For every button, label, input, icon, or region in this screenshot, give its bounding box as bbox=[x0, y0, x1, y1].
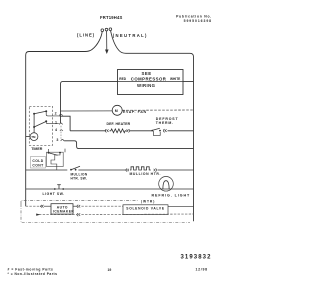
svg-text:HTR. SW.: HTR. SW. bbox=[71, 176, 88, 180]
svg-text:RED: RED bbox=[119, 77, 126, 81]
svg-text:M: M bbox=[115, 109, 118, 113]
timer terminal dashed lead bbox=[60, 126, 62, 139]
connector bbox=[105, 129, 108, 132]
compressor feed wire bbox=[63, 80, 194, 82]
svg-text:3193832: 3193832 bbox=[181, 255, 212, 261]
svg-text:SOLENOID VALVE: SOLENOID VALVE bbox=[126, 207, 165, 211]
resistor defrost heater bbox=[110, 129, 127, 133]
defrost heater row bbox=[70, 130, 106, 132]
svg-text:ICEMAKER: ICEMAKER bbox=[53, 209, 74, 213]
svg-text:MULLION HTR.: MULLION HTR. bbox=[130, 172, 162, 176]
svg-text:4: 4 bbox=[55, 128, 57, 132]
svg-text:COMPRESSOR: COMPRESSOR bbox=[131, 77, 167, 82]
svg-text:12/98: 12/98 bbox=[196, 267, 208, 271]
svg-text:SEE: SEE bbox=[142, 71, 152, 76]
svg-text:EVAP. FAN: EVAP. FAN bbox=[123, 110, 147, 114]
riser from timer terminal 2 bbox=[61, 81, 64, 123]
timer switch left column bbox=[33, 114, 35, 133]
svg-text:3: 3 bbox=[56, 138, 58, 142]
svg-text:# = Fast-moving Parts: # = Fast-moving Parts bbox=[8, 267, 54, 271]
connector bbox=[126, 169, 129, 172]
svg-text:* = Non-Illustrated Parts: * = Non-Illustrated Parts bbox=[8, 272, 58, 276]
power plug prong N bbox=[109, 28, 112, 31]
mullion row bbox=[26, 169, 68, 171]
svg-text:2: 2 bbox=[55, 112, 57, 116]
icemaker accessory enclosure (dash-dot) bbox=[21, 200, 138, 204]
svg-text:(LINE): (LINE) bbox=[77, 33, 95, 38]
timer branch to defrost heater bbox=[61, 116, 71, 131]
evap fan row bbox=[61, 110, 113, 112]
cold control switch bbox=[47, 152, 64, 166]
svg-text:TIMER: TIMER bbox=[31, 147, 43, 151]
svg-text:1: 1 bbox=[55, 121, 57, 125]
water solenoid valve box bbox=[123, 205, 168, 215]
svg-text:WHITE: WHITE bbox=[170, 77, 180, 81]
valve to neutral bus bbox=[168, 205, 194, 207]
timer dashed box bbox=[29, 106, 52, 145]
svg-text:DEF. HEATER: DEF. HEATER bbox=[107, 122, 131, 126]
svg-text:(NEUTRAL): (NEUTRAL) bbox=[113, 33, 148, 38]
svg-text:5995016398: 5995016398 bbox=[184, 19, 212, 23]
icemaker box bbox=[51, 204, 73, 214]
light row bbox=[26, 188, 54, 190]
contact 2 lead bbox=[46, 111, 58, 116]
wire to defrost thermostat bbox=[130, 130, 152, 132]
wire thermostat to neutral bus bbox=[168, 130, 194, 132]
svg-text:THERM.: THERM. bbox=[156, 121, 174, 125]
svg-text:CONT: CONT bbox=[32, 163, 44, 167]
compressor box bbox=[118, 70, 184, 95]
icemaker feed wire bbox=[26, 205, 41, 207]
defrost thermostat bbox=[151, 130, 153, 132]
line wire (left bus) bbox=[26, 32, 103, 207]
connector bbox=[154, 169, 157, 172]
svg-text:FRT19H4S: FRT19H4S bbox=[100, 15, 123, 20]
ground wire with arrow bbox=[106, 31, 108, 51]
icemaker return wire bbox=[36, 214, 40, 216]
timer switch arm 2 bbox=[33, 126, 35, 128]
timer terminal 3 wire bbox=[64, 141, 193, 149]
connector bbox=[127, 129, 130, 132]
svg-text:REFRIG. LIGHT: REFRIG. LIGHT bbox=[152, 194, 191, 198]
contact 1 lead bbox=[46, 121, 59, 123]
cold control bellows bbox=[51, 153, 60, 170]
terminal hooks bbox=[59, 114, 62, 115]
timer switch arm 1 bbox=[33, 113, 35, 115]
mullion heater element bbox=[130, 167, 151, 170]
power plug prong G bbox=[105, 28, 108, 31]
power plug prong L bbox=[101, 29, 104, 32]
refrigerator lamp bbox=[159, 177, 174, 192]
svg-text:(WTR): (WTR) bbox=[141, 200, 155, 204]
icemaker right upper wire bbox=[73, 205, 78, 207]
mullion heater switch bbox=[70, 169, 72, 171]
cold control label box bbox=[31, 157, 46, 169]
timer motor TM bbox=[30, 133, 38, 141]
connector bbox=[163, 129, 166, 132]
light switch (door plunger type) bbox=[54, 188, 56, 190]
svg-text:LIGHT SW.: LIGHT SW. bbox=[43, 192, 65, 196]
svg-text:Publication No.: Publication No. bbox=[176, 15, 212, 19]
svg-text:TM: TM bbox=[31, 135, 36, 139]
neutral wire (right bus) bbox=[111, 31, 194, 222]
svg-text:19: 19 bbox=[108, 268, 112, 272]
evap fan motor bbox=[112, 105, 122, 115]
svg-text:WIRING: WIRING bbox=[137, 83, 156, 88]
